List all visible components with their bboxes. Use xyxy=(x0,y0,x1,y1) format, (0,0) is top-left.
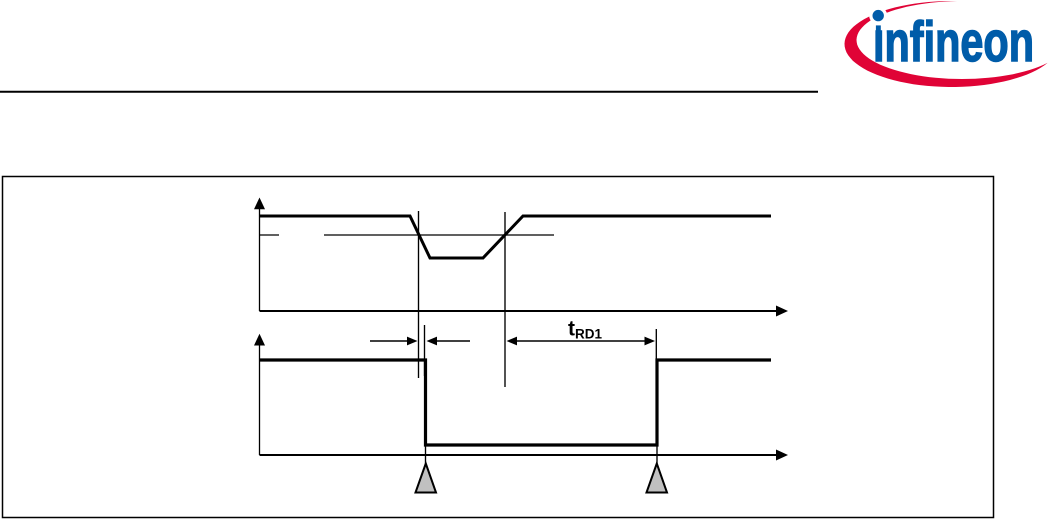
header rule xyxy=(0,91,818,93)
tick at output rising edge xyxy=(655,329,657,360)
upper waveform (input signal) xyxy=(260,216,771,258)
event marker triangle right xyxy=(647,464,668,493)
tick at output falling edge xyxy=(424,325,426,376)
lower plot y-axis xyxy=(254,334,265,455)
delay dimension arrow left part xyxy=(370,337,418,346)
svg-text:ınfineon: ınfineon xyxy=(873,10,1034,74)
figure outer box xyxy=(3,177,994,518)
svg-text:tRD1: tRD1 xyxy=(568,318,602,342)
threshold level line xyxy=(260,234,555,236)
upper plot y-axis xyxy=(254,198,265,312)
lower plot x-axis xyxy=(260,450,789,461)
marker stem at rising edge xyxy=(656,446,658,464)
cursor line at rising threshold crossing xyxy=(504,212,506,387)
cursor line at falling threshold crossing xyxy=(418,211,420,378)
Infineon logo red swoosh xyxy=(845,1,1048,87)
Infineon logo blue dot xyxy=(873,10,884,21)
event marker triangle left xyxy=(416,464,437,493)
upper plot x-axis xyxy=(260,306,789,317)
Infineon logo dot halo xyxy=(869,7,887,25)
Infineon logo first i stem (ascender extension) xyxy=(876,25,881,33)
Infineon logo wordmark "infineon" xyxy=(873,10,1034,74)
delay dimension arrow right part xyxy=(427,337,471,346)
label tRD1 xyxy=(568,318,602,342)
tRD1 dimension line with arrowheads xyxy=(507,337,656,346)
marker stem at falling edge xyxy=(425,446,427,464)
lower waveform (output signal) xyxy=(260,360,771,445)
